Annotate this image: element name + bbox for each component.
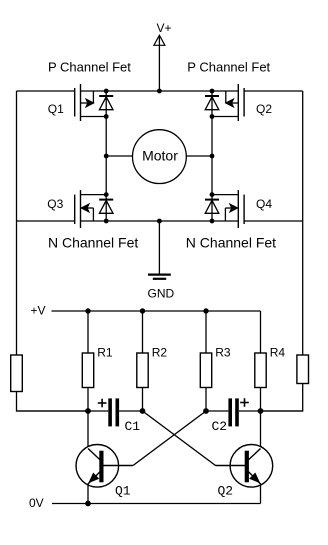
- resistor R2: [137, 346, 168, 388]
- junction dot +V/R3: [203, 308, 208, 313]
- wire left resistor bottom lead: [17, 392, 89, 412]
- wire right resistor bottom lead: [261, 384, 303, 412]
- wire cross-couple C1 to Q2 base: [143, 411, 216, 466]
- junction dot V+ rail: [157, 89, 162, 94]
- svg-text:+V: +V: [31, 304, 46, 318]
- svg-text:Q2: Q2: [256, 102, 272, 116]
- junction dot GND tap: [157, 219, 162, 224]
- V+ arrow symbol: [154, 35, 165, 45]
- wire C1 left lead: [17, 410, 109, 412]
- svg-text:Q4: Q4: [256, 197, 272, 211]
- wire Q1 gate: [17, 90, 75, 92]
- transistor Q1 (NPN): [76, 445, 133, 499]
- resistor left (base bias): [11, 355, 23, 392]
- svg-text:C1: C1: [125, 419, 141, 434]
- wire C2 right lead: [239, 410, 303, 412]
- wire R2 bottom lead: [142, 388, 144, 412]
- junction dot +V/R1: [85, 308, 90, 313]
- wire Q4 gate: [244, 220, 303, 222]
- wire right bridge rail: [211, 117, 213, 195]
- wire left bridge rail: [105, 117, 107, 195]
- svg-text:R1: R1: [97, 346, 113, 360]
- junction dot Q2 drain: [210, 114, 215, 119]
- capacitor C1: [98, 398, 141, 434]
- svg-text:Q1: Q1: [48, 102, 64, 116]
- svg-text:N Channel Fet: N Channel Fet: [48, 235, 138, 251]
- transistor Q1 (P channel fet): [48, 84, 106, 121]
- junction dot Q2 source: [210, 89, 215, 94]
- svg-text:C2: C2: [212, 419, 228, 434]
- wire R1 top lead: [87, 311, 89, 353]
- wire V+ to top rail: [158, 37, 160, 92]
- junction dot C2 right: [258, 408, 264, 414]
- wire Q1 emitter: [87, 484, 89, 504]
- svg-text:R2: R2: [152, 346, 168, 360]
- svg-text:Q1: Q1: [115, 484, 131, 499]
- svg-text:Motor: Motor: [142, 147, 178, 163]
- junction dot motor left: [104, 154, 109, 159]
- transistor Q2 (P channel fet): [212, 84, 272, 121]
- wire R2 top lead: [142, 311, 144, 353]
- wire R1 bottom to Q1 collector: [87, 388, 89, 451]
- junction dot Q4 drain: [210, 192, 215, 197]
- junction dot Q1 drain: [104, 114, 109, 119]
- wire left gate rail: [16, 91, 18, 355]
- wire +V rail: [52, 310, 261, 312]
- wire 0V rail: [52, 503, 261, 505]
- diode D1 (Q1 body diode): [99, 91, 113, 117]
- junction dot Q3 drain: [104, 192, 109, 197]
- junction dot Q1 source: [104, 89, 109, 94]
- svg-text:GND: GND: [148, 287, 175, 301]
- diode D2 (Q2 body diode): [205, 91, 219, 117]
- junction dot Q3 source: [104, 219, 109, 224]
- junction dot 0V/Q1 emitter: [85, 501, 91, 507]
- wire GND tap: [158, 221, 160, 274]
- resistor R1: [82, 346, 113, 388]
- svg-text:P Channel Fet: P Channel Fet: [48, 59, 131, 74]
- capacitor C2: [212, 398, 249, 434]
- junction dot C2 left: [203, 408, 209, 414]
- transistor Q2 (NPN): [216, 445, 273, 499]
- junction dot C1 left: [85, 408, 91, 414]
- wire Q2 gate: [244, 90, 303, 92]
- diode D3 (Q3 body diode): [99, 195, 113, 221]
- diode D4 (Q4 body diode): [205, 195, 219, 221]
- svg-text:N Channel Fet: N Channel Fet: [186, 235, 276, 251]
- svg-text:Q2: Q2: [218, 484, 234, 499]
- resistor R3: [200, 346, 231, 388]
- wire R3 top lead: [205, 311, 207, 353]
- junction dot motor right: [210, 154, 215, 159]
- wire R3 bottom lead: [205, 388, 207, 412]
- transistor Q4 (N channel fet): [212, 190, 272, 228]
- wire Q3 gate: [17, 220, 75, 222]
- wire top rail: [81, 90, 239, 92]
- wire R4 top lead: [260, 311, 262, 353]
- wire C2 left lead: [206, 410, 228, 412]
- junction dot C1 right: [140, 408, 146, 414]
- svg-text:Q3: Q3: [47, 197, 63, 211]
- resistor right (base bias): [297, 355, 309, 384]
- wire cross-couple C2 to Q1 base: [133, 411, 206, 466]
- wire Q2 emitter: [260, 484, 262, 504]
- wire bottom bridge rail: [81, 220, 239, 222]
- svg-text:V+: V+: [157, 21, 172, 35]
- ground symbol GND: [148, 275, 175, 301]
- svg-text:P Channel Fet: P Channel Fet: [187, 59, 270, 74]
- junction dot +V/R2: [140, 308, 145, 313]
- wire R4 bottom to Q2 collector: [260, 388, 262, 451]
- transistor Q3 (N channel fet): [47, 190, 106, 228]
- wire right gate rail: [302, 91, 304, 355]
- svg-text:0V: 0V: [29, 496, 44, 510]
- motor M1: [106, 130, 212, 184]
- svg-text:R4: R4: [270, 346, 286, 360]
- resistor R4: [255, 346, 286, 388]
- junction dot Q4 source: [210, 219, 215, 224]
- svg-text:R3: R3: [215, 346, 231, 360]
- wire C1 right lead: [119, 410, 142, 412]
